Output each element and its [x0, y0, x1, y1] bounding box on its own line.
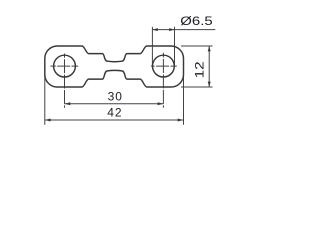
- svg-text:Ø6.5: Ø6.5: [180, 14, 213, 28]
- svg-text:30: 30: [108, 90, 123, 104]
- svg-text:42: 42: [107, 106, 122, 120]
- svg-text:12: 12: [192, 61, 206, 78]
